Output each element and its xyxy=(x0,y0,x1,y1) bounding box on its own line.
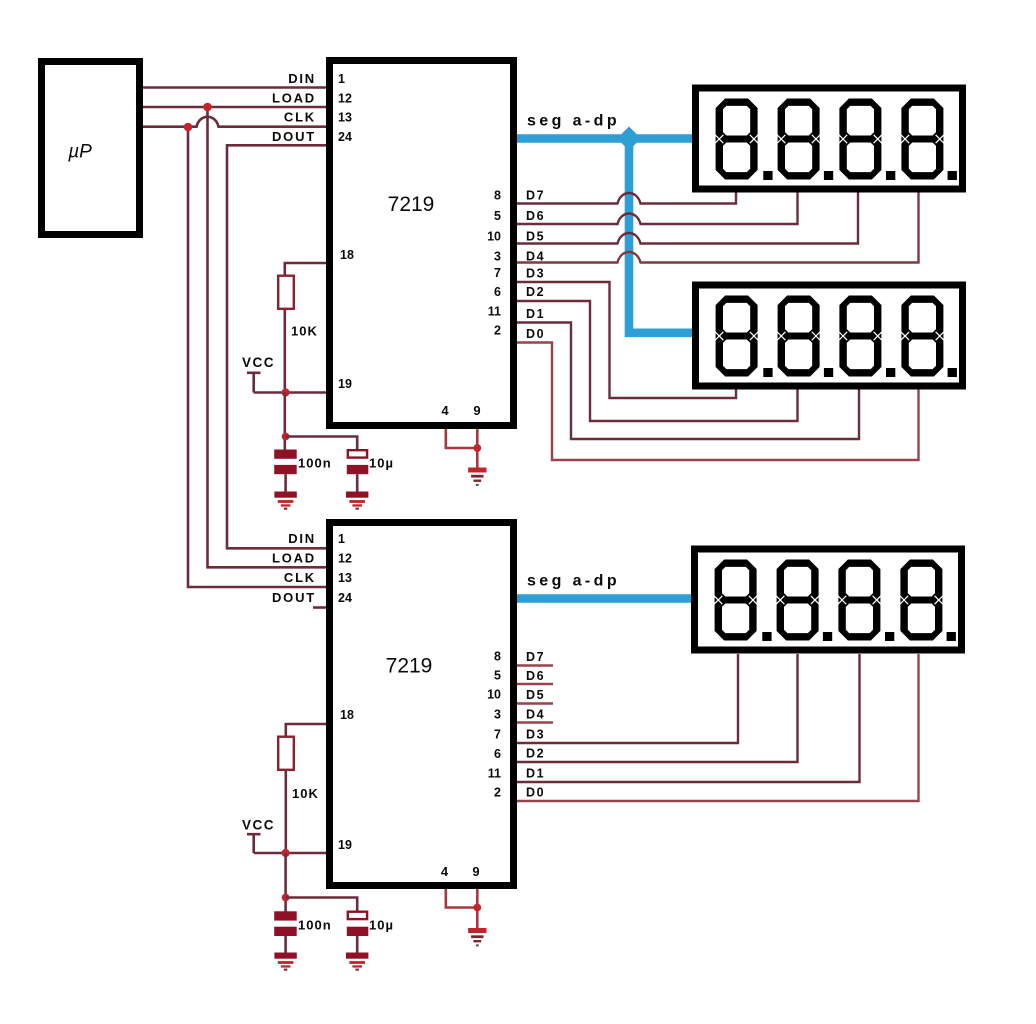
svg-text:D3: D3 xyxy=(526,728,545,742)
svg-text:DIN: DIN xyxy=(288,71,316,86)
wire DOUT U1 pin 24 to U2 DIN pin 1 xyxy=(227,145,326,548)
svg-text:10K: 10K xyxy=(291,324,318,339)
svg-text:6: 6 xyxy=(494,285,501,299)
ground of U2 pins 4 9 xyxy=(468,928,486,946)
svg-text:18: 18 xyxy=(340,708,354,722)
svg-text:D4: D4 xyxy=(526,250,545,264)
svg-text:10µ: 10µ xyxy=(369,917,394,932)
svg-text:DOUT: DOUT xyxy=(272,129,316,144)
display DISP3 xyxy=(695,549,962,650)
wire LOAD drop to U2 pin 12 xyxy=(208,107,327,567)
ground of C1 xyxy=(274,492,296,510)
wire VCC to U2 pin 19 xyxy=(254,852,326,855)
ground of U1 pins 4 9 xyxy=(468,468,486,486)
capacitor C1 100n xyxy=(274,450,297,493)
svg-text:11: 11 xyxy=(488,304,501,318)
svg-text:D7: D7 xyxy=(526,650,545,664)
wire D6 stub U2 pin 5 xyxy=(517,683,553,685)
svg-text:µP: µP xyxy=(67,142,92,163)
svg-text:D3: D3 xyxy=(526,267,545,281)
svg-text:D2: D2 xyxy=(526,285,545,299)
VCC symbol lower xyxy=(247,834,261,853)
capacitor C3 100n xyxy=(274,911,297,953)
svg-text:19: 19 xyxy=(338,838,352,852)
wire DOUT stub U2 pin 24 xyxy=(313,606,326,609)
svg-text:18: 18 xyxy=(340,248,354,262)
node ground junction U2 xyxy=(473,904,481,912)
wire D0 from U2 pin 2 to DISP3 xyxy=(517,654,919,801)
svg-text:2: 2 xyxy=(494,786,501,800)
IC U1 7219 body xyxy=(330,61,514,426)
resistor R1 body xyxy=(278,276,294,309)
node blue bus junction diamond xyxy=(617,127,641,151)
svg-text:LOAD: LOAD xyxy=(272,91,316,106)
display DISP2 xyxy=(696,285,963,386)
blue bus drop to display DISP2 xyxy=(629,139,693,333)
svg-text:10: 10 xyxy=(487,229,501,243)
node capacitor branch junction U1 xyxy=(282,433,290,441)
wire D1 from U1 pin 11 to DISP2 xyxy=(517,323,859,440)
wire D5 from U1 pin 10 to DISP1 xyxy=(517,193,858,244)
wire D3 from U1 pin 7 to DISP2 xyxy=(517,282,736,398)
svg-text:100n: 100n xyxy=(298,917,332,932)
svg-text:1: 1 xyxy=(338,532,345,546)
wire CLK drop to U2 pin 13 xyxy=(188,127,326,587)
svg-text:seg a-dp: seg a-dp xyxy=(527,113,620,130)
wire CLK hop over LOAD drop to U1 pin 13 xyxy=(188,117,326,127)
svg-text:LOAD: LOAD xyxy=(272,551,316,566)
svg-text:6: 6 xyxy=(494,747,501,761)
svg-text:8: 8 xyxy=(494,189,501,203)
wire D5 stub U2 pin 10 xyxy=(517,702,553,704)
svg-text:CLK: CLK xyxy=(284,110,316,125)
svg-text:7219: 7219 xyxy=(388,193,435,216)
ground of C2 xyxy=(346,492,368,510)
display DISP1 xyxy=(696,88,963,189)
svg-text:D6: D6 xyxy=(526,669,545,683)
node LOAD junction xyxy=(203,103,212,112)
blue segment bus U2 to display DISP3 xyxy=(517,594,691,603)
svg-text:19: 19 xyxy=(338,377,352,391)
wire R2 to VCC rail lower xyxy=(284,771,287,853)
svg-text:D0: D0 xyxy=(526,786,545,800)
resistor R2 body xyxy=(278,737,294,770)
wire D4 from U1 pin 3 to DISP1 xyxy=(517,193,919,263)
svg-text:4: 4 xyxy=(441,403,449,418)
svg-text:12: 12 xyxy=(338,552,352,566)
svg-text:D0: D0 xyxy=(526,327,545,341)
svg-text:7219: 7219 xyxy=(386,655,433,678)
microprocessor box xyxy=(42,62,140,235)
svg-text:2: 2 xyxy=(494,323,501,337)
svg-text:D1: D1 xyxy=(526,767,545,781)
wire VCC to U1 pin 19 xyxy=(254,391,326,394)
svg-text:12: 12 xyxy=(338,92,352,106)
svg-text:VCC: VCC xyxy=(242,355,275,370)
IC U2 7219 body xyxy=(330,523,514,886)
svg-text:7: 7 xyxy=(494,728,501,742)
svg-text:100n: 100n xyxy=(298,455,332,470)
wire branch to capacitor C2 xyxy=(286,437,358,450)
svg-text:VCC: VCC xyxy=(242,818,275,833)
svg-text:3: 3 xyxy=(494,250,501,264)
svg-text:13: 13 xyxy=(338,571,352,585)
VCC symbol upper xyxy=(247,373,261,393)
svg-text:DIN: DIN xyxy=(288,531,316,546)
node capacitor branch junction U2 xyxy=(282,894,290,902)
node ground junction U1 xyxy=(473,444,481,452)
capacitor C2 10µ xyxy=(347,450,369,492)
wire D6 from U1 pin 5 to DISP1 xyxy=(517,193,798,225)
node CLK junction xyxy=(184,123,193,132)
wire D7 stub U2 pin 8 xyxy=(517,664,553,666)
svg-text:1: 1 xyxy=(338,72,345,86)
svg-text:D7: D7 xyxy=(526,189,545,203)
svg-text:24: 24 xyxy=(338,130,352,144)
wire CLK from microprocessor xyxy=(143,125,188,128)
node VCC junction U2 xyxy=(282,849,290,857)
svg-text:13: 13 xyxy=(338,111,352,125)
wire D2 from U2 pin 6 to DISP3 xyxy=(517,654,798,762)
wire U1 pin 4 to ground xyxy=(446,429,478,448)
wire branch to capacitor C4 xyxy=(286,898,358,912)
svg-text:7: 7 xyxy=(494,266,501,280)
wire U2 pin 18 to resistor R2 xyxy=(286,724,326,736)
ground of C4 xyxy=(346,953,368,971)
svg-text:D1: D1 xyxy=(526,307,545,321)
wire U1 pin 18 to resistor R1 xyxy=(285,263,326,275)
svg-text:10: 10 xyxy=(487,688,501,702)
wire DIN from microprocessor to U1 pin 1 xyxy=(143,86,326,89)
svg-text:8: 8 xyxy=(494,650,501,664)
svg-text:CLK: CLK xyxy=(284,570,316,585)
wire U2 pin 4 to ground xyxy=(446,889,478,908)
svg-text:D4: D4 xyxy=(526,708,545,722)
svg-text:D5: D5 xyxy=(526,688,545,702)
blue segment bus U1 to display DISP1 xyxy=(517,134,692,143)
svg-text:D5: D5 xyxy=(526,229,545,243)
capacitor C4 10µ xyxy=(347,912,369,953)
wire D7 from U1 pin 8 to DISP1 xyxy=(517,193,736,204)
svg-text:10K: 10K xyxy=(292,786,319,801)
wire D1 from U2 pin 11 to DISP3 xyxy=(517,654,860,782)
wire U2 pin 9 to ground xyxy=(476,889,479,929)
wire LOAD from microprocessor to U1 pin 12 xyxy=(143,106,326,109)
wire D4 stub U2 pin 3 xyxy=(517,721,553,723)
svg-text:5: 5 xyxy=(494,209,501,223)
wire VCC rail down to capacitors lower xyxy=(284,853,287,912)
svg-text:9: 9 xyxy=(473,403,480,418)
svg-text:24: 24 xyxy=(338,591,352,605)
svg-text:10µ: 10µ xyxy=(369,455,394,470)
wire D2 from U1 pin 6 to DISP2 xyxy=(517,301,798,421)
svg-text:5: 5 xyxy=(494,669,501,683)
svg-text:11: 11 xyxy=(488,766,501,780)
ground of C3 xyxy=(274,953,296,971)
wire VCC rail down to capacitors xyxy=(283,393,286,451)
svg-text:D6: D6 xyxy=(526,209,545,223)
svg-text:DOUT: DOUT xyxy=(272,590,316,605)
node VCC junction U1 xyxy=(282,388,290,396)
svg-text:4: 4 xyxy=(441,864,449,879)
wire R1 to VCC rail xyxy=(283,310,286,393)
svg-text:9: 9 xyxy=(472,864,479,879)
wire U1 pin 9 to ground xyxy=(476,429,479,468)
wire D0 from U1 pin 2 to DISP2 xyxy=(517,343,919,461)
svg-text:seg a-dp: seg a-dp xyxy=(527,573,620,590)
svg-text:3: 3 xyxy=(494,708,501,722)
svg-text:D2: D2 xyxy=(526,747,545,761)
wire D3 from U2 pin 7 to DISP3 xyxy=(517,654,738,743)
